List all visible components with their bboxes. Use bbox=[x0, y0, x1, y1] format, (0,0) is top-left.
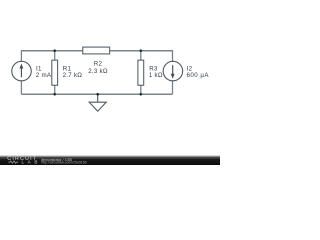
svg-text:http://circuitlab.com/c/5u9163: http://circuitlab.com/c/5u9163 bbox=[41, 161, 87, 165]
wire I1 branch bbox=[20, 50, 22, 94]
resistor R1 bbox=[52, 60, 58, 85]
node R3 bottom junction bbox=[140, 93, 143, 96]
wire top rail bbox=[21, 50, 172, 52]
resistor R3 bbox=[138, 60, 144, 85]
node R1 bottom junction bbox=[53, 93, 56, 96]
svg-text:LAB: LAB bbox=[22, 160, 41, 165]
CircuitLab logo zigzag bbox=[8, 161, 18, 163]
svg-text:2 mA: 2 mA bbox=[36, 72, 52, 79]
current source I1 bbox=[12, 61, 32, 81]
svg-text:2.7 kΩ: 2.7 kΩ bbox=[63, 72, 83, 79]
svg-text:2.3 kΩ: 2.3 kΩ bbox=[88, 68, 108, 75]
svg-text:1 kΩ: 1 kΩ bbox=[149, 72, 163, 79]
wire R1 branch bbox=[54, 51, 56, 94]
svg-text:R2: R2 bbox=[94, 61, 103, 68]
ground bbox=[89, 94, 106, 111]
wire I2 branch bbox=[172, 50, 174, 94]
current source I2 bbox=[163, 61, 183, 81]
wire R3 branch bbox=[140, 51, 142, 94]
resistor R2 bbox=[83, 47, 110, 54]
node ground junction bbox=[96, 93, 99, 96]
node R3 top junction bbox=[140, 49, 143, 52]
svg-text:600 µA: 600 µA bbox=[187, 72, 210, 79]
watermark bar bbox=[0, 155, 220, 158]
node R1 top junction bbox=[53, 49, 56, 52]
wire bottom rail bbox=[21, 93, 172, 95]
